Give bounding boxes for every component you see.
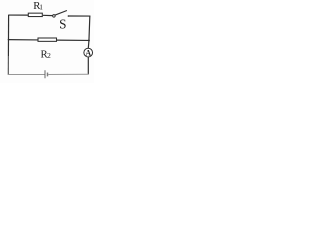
switch S blade (open): [55, 11, 67, 16]
battery short plate (-): [47, 73, 49, 77]
resistor R2: [38, 38, 57, 41]
battery long plate (+): [44, 70, 46, 78]
wire: battery to bottom-right corner: [48, 73, 88, 75]
svg-text:1: 1: [39, 3, 43, 12]
wire: top left segment into R1: [8, 14, 28, 16]
wire: R2 to junction: [57, 39, 89, 41]
wire: switch to top-right corner: [68, 15, 90, 17]
wire: bottom left segment to battery: [8, 73, 45, 75]
svg-text:S: S: [59, 17, 66, 32]
wire: right rail below ammeter: [87, 57, 89, 74]
wire: left rail: [7, 15, 9, 56]
switch S fixed contact dot: [68, 15, 70, 17]
svg-text:2: 2: [47, 51, 51, 60]
wire: R1 to switch pivot: [43, 14, 53, 16]
ammeter A circle: [84, 48, 93, 57]
wire: right rail upper (corner to T junction to ammeter top): [88, 16, 90, 49]
node: middle wire joins left rail: [8, 39, 10, 41]
svg-text:A: A: [85, 48, 91, 57]
resistor R1: [28, 13, 42, 16]
switch S pivot circle: [53, 15, 56, 18]
junction node (middle wire / right rail): [88, 40, 90, 42]
wire: middle horizontal into R2: [8, 39, 38, 41]
